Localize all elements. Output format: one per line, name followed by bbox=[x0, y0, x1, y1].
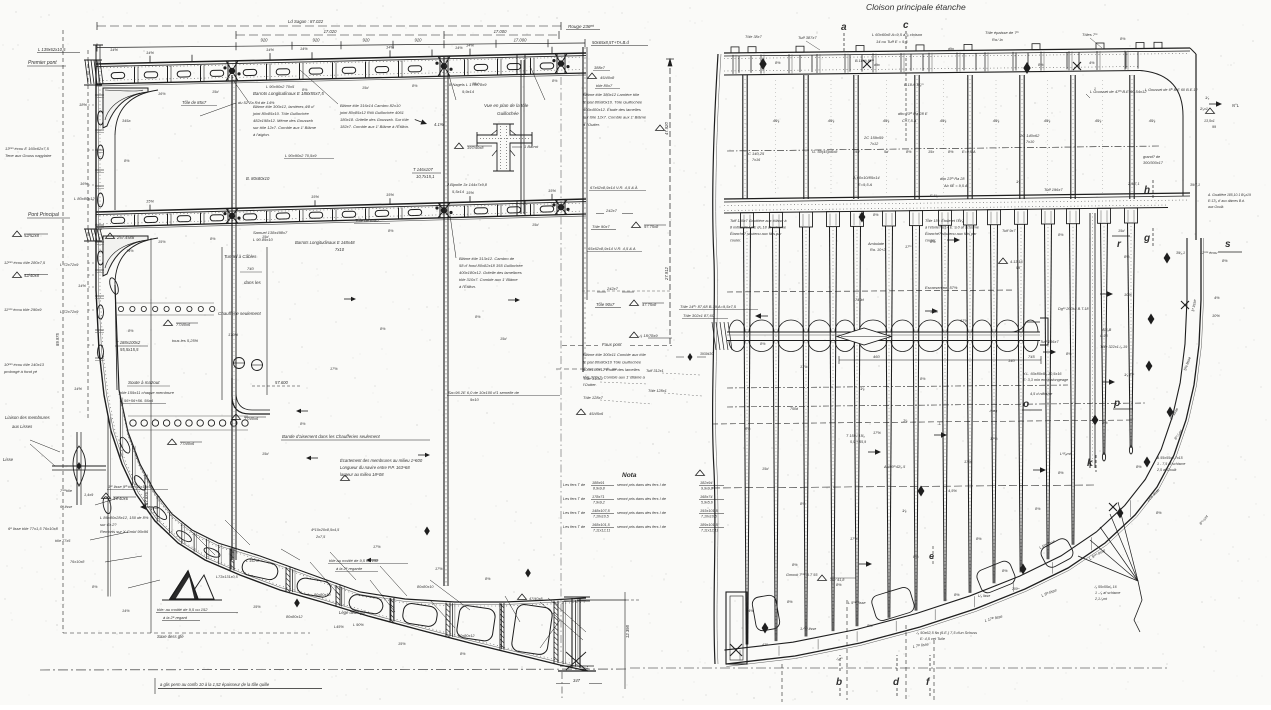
svg-text:L 60x60x8 A=9,5 à ⁄₆ cloison: L 60x60x8 A=9,5 à ⁄₆ cloison bbox=[872, 32, 923, 37]
svg-text:11ᵐᵐ écou tôle 290x9: 11ᵐᵐ écou tôle 290x9 bbox=[4, 307, 42, 312]
svg-text:193x101,5: 193x101,5 bbox=[700, 509, 719, 513]
svg-text:242x7: 242x7 bbox=[606, 286, 619, 291]
svg-text:Tôle 15ᵉ: Étoile et l'Ét⁄₆: Tôle 15ᵉ: Étoile et l'Ét⁄₆ bbox=[925, 218, 964, 223]
svg-text:7,10x10,5: 7,10x10,5 bbox=[593, 515, 609, 519]
svg-text:7ᵐᵐtôle: 7ᵐᵐtôle bbox=[60, 489, 72, 493]
svg-text:g: g bbox=[1143, 233, 1150, 244]
svg-text:tôle 159x11 chaque membrure: tôle 159x11 chaque membrure bbox=[120, 390, 175, 395]
svg-text:c: c bbox=[903, 20, 909, 31]
svg-text:8%: 8% bbox=[552, 79, 558, 83]
svg-text:4%: 4% bbox=[1089, 61, 1095, 65]
svg-text:Premier pont: Premier pont bbox=[28, 60, 57, 66]
svg-text:⁄₆ 18/78x9: ⁄₆ 18/78x9 bbox=[638, 333, 658, 338]
svg-text:145a: 145a bbox=[150, 506, 158, 510]
svg-text:8%: 8% bbox=[388, 229, 394, 233]
svg-text:Barrots Longitudinaux E 188x5: Barrots Longitudinaux E 188x55x7,5 bbox=[253, 91, 324, 96]
svg-text:1 ⁄ᵐᵐ lisse: 1 ⁄ᵐᵐ lisse bbox=[800, 627, 816, 631]
svg-text:1⁄₆: 1⁄₆ bbox=[860, 386, 865, 391]
svg-text:17.000: 17.000 bbox=[494, 29, 507, 34]
svg-text:920: 920 bbox=[415, 38, 423, 43]
svg-text:sur tôle 12x7. Comble aux 1' B: sur tôle 12x7. Comble aux 1' Blâme bbox=[253, 125, 317, 130]
svg-text:seront pris dans des fers I de: seront pris dans des fers I de bbox=[617, 511, 666, 515]
svg-text:17%: 17% bbox=[373, 545, 381, 549]
svg-text:L 90%: L 90% bbox=[353, 623, 364, 627]
svg-text:Ld Sagan : 87.022: Ld Sagan : 87.022 bbox=[288, 19, 324, 24]
svg-text:14%: 14% bbox=[455, 46, 463, 50]
svg-text:80x80x10: 80x80x10 bbox=[314, 593, 331, 597]
svg-text:N°L: N°L bbox=[1232, 103, 1240, 108]
svg-text:56+56+56. 56x4: 56+56+56. 56x4 bbox=[124, 398, 154, 403]
svg-text:Samuel 138x498x7: Samuel 138x498x7 bbox=[253, 230, 288, 235]
svg-text:Chaufferie seulement: Chaufferie seulement bbox=[218, 311, 262, 316]
svg-text:2x7,5: 2x7,5 bbox=[315, 535, 326, 539]
svg-text:tôle 77x5: tôle 77x5 bbox=[55, 539, 71, 543]
svg-text:14 ou Tuff E = 9,6: 14 ou Tuff E = 9,6 bbox=[876, 39, 908, 44]
svg-text:170%: 170% bbox=[228, 332, 239, 337]
svg-text:14%: 14% bbox=[126, 249, 134, 253]
svg-text:dito 23ᵗʰ Ra 28: dito 23ᵗʰ Ra 28 bbox=[940, 177, 965, 181]
svg-text:12.398: 12.398 bbox=[625, 625, 630, 638]
svg-text:1,4x9: 1,4x9 bbox=[84, 493, 94, 497]
svg-text:sur tôle 12x7. Comble aux 1' B: sur tôle 12x7. Comble aux 1' Blâme bbox=[583, 115, 647, 120]
svg-text:prolongé à fond yé: prolongé à fond yé bbox=[3, 369, 38, 374]
svg-text:35 ⁄ 41,8: 35 ⁄ 41,8 bbox=[830, 578, 845, 582]
svg-text:Tôle de 85x7: Tôle de 85x7 bbox=[355, 218, 380, 223]
svg-text:1⁄₆: 1⁄₆ bbox=[1016, 180, 1021, 184]
svg-text:8%: 8% bbox=[920, 377, 926, 381]
svg-text:14%: 14% bbox=[74, 386, 82, 391]
svg-text:9,9x9,8: 9,9x9,8 bbox=[701, 487, 713, 491]
svg-text:80x80x12: 80x80x12 bbox=[286, 615, 303, 619]
svg-text:A. Gouttière 185,10.1 B⁄₆x19: A. Gouttière 185,10.1 B⁄₆x19 bbox=[1207, 193, 1251, 197]
svg-text:15%: 15% bbox=[146, 199, 154, 204]
svg-text:s: s bbox=[1225, 239, 1231, 250]
svg-text:Cloison principale étanche: Cloison principale étanche bbox=[866, 2, 966, 12]
svg-text:15d: 15d bbox=[472, 82, 479, 86]
svg-text:4,5%: 4,5% bbox=[948, 488, 957, 493]
svg-text:10%: 10% bbox=[1212, 313, 1220, 318]
svg-text:920: 920 bbox=[363, 38, 371, 43]
svg-text:15%: 15% bbox=[311, 194, 319, 199]
svg-text:Tôle 38x7: Tôle 38x7 bbox=[745, 35, 763, 39]
svg-text:⁄₆ 50x62,5 fla (6.E.) 7,5 d'un: ⁄₆ 50x62,5 fla (6.E.) 7,5 d'un Schuss bbox=[915, 631, 977, 635]
svg-text:Tene aux Gouss nagylaire: Tene aux Gouss nagylaire bbox=[5, 153, 52, 158]
svg-text:8%: 8% bbox=[1156, 510, 1162, 515]
svg-text:148x107,5: 148x107,5 bbox=[592, 509, 611, 513]
svg-text:45⁄₆: 45⁄₆ bbox=[1095, 118, 1102, 123]
svg-text:17%: 17% bbox=[930, 309, 938, 314]
svg-text:242x7: 242x7 bbox=[605, 208, 618, 213]
svg-text:aux Lisses: aux Lisses bbox=[12, 424, 33, 429]
svg-text:Tuff 136x7 Gouttière aux tôli: Tuff 136x7 Gouttière aux tôlisse à bbox=[730, 219, 787, 223]
svg-text:45/40x8: 45/40x8 bbox=[600, 75, 615, 80]
svg-text:Tôle 322x1 ⁄₆.19: Tôle 322x1 ⁄₆.19 bbox=[1100, 345, 1128, 349]
svg-text:8%: 8% bbox=[1222, 258, 1228, 263]
svg-text:Liaison des membrures: Liaison des membrures bbox=[5, 415, 51, 420]
svg-text:17.020: 17.020 bbox=[324, 29, 337, 34]
svg-text:4,5 d nilleuse: 4,5 d nilleuse bbox=[1030, 392, 1052, 396]
svg-text:5,9 + 55,9: 5,9 + 55,9 bbox=[850, 440, 866, 444]
svg-text:seront pris dans des fers I de: seront pris dans des fers I de bbox=[617, 525, 666, 529]
svg-text:à l'aiglon.: à l'aiglon. bbox=[253, 132, 270, 137]
svg-text:B. 80x80x10: B. 80x80x10 bbox=[246, 176, 270, 181]
svg-text:dito: dito bbox=[874, 63, 880, 67]
svg-text:tous les 5,25%: tous les 5,25% bbox=[172, 338, 199, 343]
svg-text:4.13,16: 4.13,16 bbox=[1010, 260, 1024, 264]
svg-text:Les fers T de: Les fers T de bbox=[563, 511, 585, 515]
svg-text:L 5ᵐᵐ lisse: L 5ᵐᵐ lisse bbox=[848, 601, 866, 605]
svg-text:Longueur du navire entre P.P.: Longueur du navire entre P.P. 163ᵐ68 bbox=[340, 465, 410, 470]
svg-text:a glis perm au confo 10 à la 1: a glis perm au confo 10 à la 1,52 épaiss… bbox=[160, 682, 270, 687]
svg-text:8%: 8% bbox=[128, 329, 134, 333]
svg-text:8%: 8% bbox=[775, 61, 781, 65]
svg-text:1 - ⁄₆ af schisme: 1 - ⁄₆ af schisme bbox=[1095, 591, 1120, 595]
svg-text:13,5x1: 13,5x1 bbox=[1204, 119, 1215, 123]
svg-text:à la 2ᵉ regard: à la 2ᵉ regard bbox=[163, 615, 188, 620]
svg-text:15%: 15% bbox=[253, 605, 261, 609]
svg-text:Faux pont: Faux pont bbox=[602, 342, 622, 347]
svg-text:10,7x15,1: 10,7x15,1 bbox=[416, 174, 434, 179]
svg-text:8%: 8% bbox=[906, 150, 912, 154]
svg-text:joint 80x85x10. Tôle Guilloché: joint 80x85x10. Tôle Guillochée bbox=[252, 111, 310, 116]
svg-text:9,9x14: 9,9x14 bbox=[462, 89, 475, 94]
svg-text:à l'Outter.: à l'Outter. bbox=[583, 122, 600, 127]
svg-text:Guillochée: Guillochée bbox=[497, 111, 519, 116]
svg-text:⊥: ⊥ bbox=[937, 421, 941, 427]
svg-text:4.1%: 4.1% bbox=[434, 122, 444, 127]
svg-text:tôle: au moitié de 9,5 ou 152: tôle: au moitié de 9,5 ou 152 bbox=[157, 607, 208, 612]
svg-text:seront pris dans des fers I de: seront pris dans des fers I de bbox=[617, 483, 666, 487]
svg-text:E=9,5 A: E=9,5 A bbox=[962, 150, 976, 154]
svg-text:2C 140x62: 2C 140x62 bbox=[1019, 133, 1040, 138]
svg-text:8%: 8% bbox=[1058, 470, 1064, 475]
svg-text:Barrots Longitudinaux E 148x4: Barrots Longitudinaux E 148x48 bbox=[295, 240, 355, 245]
svg-text:8%: 8% bbox=[948, 150, 954, 154]
svg-text:8%: 8% bbox=[1058, 233, 1064, 237]
svg-text:dito: dito bbox=[948, 47, 954, 51]
svg-text:Tôle 90x7: Tôle 90x7 bbox=[596, 302, 615, 307]
svg-text:76x10x8: 76x10x8 bbox=[70, 560, 85, 564]
svg-text:couler.: couler. bbox=[925, 239, 936, 243]
svg-text:L 139x62x10,5: L 139x62x10,5 bbox=[38, 47, 66, 52]
svg-text:14%: 14% bbox=[78, 283, 86, 288]
svg-text:⁄₆ 55x55x⁄₆ 16: ⁄₆ 55x55x⁄₆ 16 bbox=[1094, 585, 1117, 589]
svg-text:8%: 8% bbox=[760, 342, 766, 346]
svg-text:8 milliard? 14 E d⁄₆ 18 af sch: 8 milliard? 14 E d⁄₆ 18 af schisme bbox=[730, 226, 786, 230]
svg-text:14%: 14% bbox=[300, 47, 308, 51]
svg-text:L Gousset de 47ᵗʰ B.E 60,54x1: L Gousset de 47ᵗʰ B.E 60,54x12 bbox=[1090, 89, 1147, 94]
svg-text:1⁄₆: 1⁄₆ bbox=[902, 508, 907, 513]
svg-text:8%: 8% bbox=[867, 623, 873, 628]
svg-text:178x71: 178x71 bbox=[592, 495, 604, 499]
svg-text:Nota: Nota bbox=[622, 472, 637, 479]
svg-text:L73x131x0,5: L73x131x0,5 bbox=[216, 575, 239, 579]
svg-text:15%: 15% bbox=[386, 192, 394, 197]
svg-text:Blâme tôle 316x14 Cambro 82x10: Blâme tôle 316x14 Cambro 82x10 bbox=[340, 103, 401, 108]
svg-text:8%: 8% bbox=[300, 422, 306, 426]
svg-text:8 Nagels L 178x78x9: 8 Nagels L 178x78x9 bbox=[449, 82, 487, 87]
svg-text:L 72x72x9: L 72x72x9 bbox=[60, 262, 79, 267]
svg-text:920: 920 bbox=[313, 38, 321, 43]
svg-text:Les fers T de: Les fers T de bbox=[563, 483, 585, 487]
svg-text:15d: 15d bbox=[212, 90, 219, 94]
svg-text:Lᵒᵗ⁄₆mt: Lᵒᵗ⁄₆mt bbox=[1060, 452, 1072, 456]
svg-text:à l'Étillon.: à l'Étillon. bbox=[459, 284, 476, 289]
svg-text:Sa=96 2E 6,0 de 10x100 d'1 sem: Sa=96 2E 6,0 de 10x100 d'1 semelle de bbox=[448, 390, 520, 395]
svg-text:Tôle de 85x7: Tôle de 85x7 bbox=[182, 100, 207, 105]
svg-text:à la 2ᵉ regarde: à la 2ᵉ regarde bbox=[336, 566, 363, 571]
svg-text:8%: 8% bbox=[873, 213, 879, 217]
svg-text:Tôle 90x7: Tôle 90x7 bbox=[592, 224, 610, 229]
svg-text:7x10: 7x10 bbox=[335, 247, 345, 252]
svg-text:8%: 8% bbox=[1038, 63, 1044, 67]
svg-text:750d: 750d bbox=[790, 407, 799, 411]
svg-text:15%: 15% bbox=[466, 190, 474, 195]
svg-text:8%: 8% bbox=[1124, 254, 1130, 259]
svg-text:15%: 15% bbox=[548, 188, 556, 193]
svg-text:920: 920 bbox=[261, 38, 269, 43]
svg-text:47/40x8: 47/40x8 bbox=[529, 597, 543, 601]
svg-text:8%: 8% bbox=[792, 562, 798, 567]
svg-text:45/45x6: 45/45x6 bbox=[589, 411, 604, 416]
svg-text:Tuff 136x7: Tuff 136x7 bbox=[1040, 339, 1059, 344]
svg-text:Ambulate: Ambulate bbox=[867, 242, 884, 246]
svg-text:B.18 ⁄ô B⁄₆ᵐ: B.18 ⁄ô B⁄₆ᵐ bbox=[904, 83, 924, 87]
svg-text:Soute à mazout: Soute à mazout bbox=[128, 380, 160, 385]
svg-text:Escarsement 57%: Escarsement 57% bbox=[925, 285, 958, 290]
svg-text:2,9/7,1: 2,9/7,1 bbox=[1127, 182, 1140, 186]
svg-text:99: 99 bbox=[1212, 125, 1216, 129]
svg-text:8%: 8% bbox=[745, 427, 751, 431]
svg-text:15d: 15d bbox=[532, 223, 539, 227]
svg-text:4%: 4% bbox=[1214, 295, 1220, 300]
svg-text:Tuff 196x7: Tuff 196x7 bbox=[1044, 187, 1063, 192]
svg-text:8%: 8% bbox=[124, 159, 130, 163]
svg-text:a: a bbox=[841, 22, 847, 33]
svg-text:Blâme tôle 313x12. Cambro de: Blâme tôle 313x12. Cambro de bbox=[459, 256, 515, 261]
svg-text:16%: 16% bbox=[158, 92, 166, 96]
svg-text:4%: 4% bbox=[748, 608, 754, 613]
svg-text:345a: 345a bbox=[122, 119, 130, 123]
svg-text:740: 740 bbox=[247, 266, 254, 271]
svg-text:8%: 8% bbox=[976, 536, 982, 541]
svg-text:388x7: 388x7 bbox=[594, 65, 606, 70]
svg-text:Pont Principal: Pont Principal bbox=[28, 212, 60, 218]
svg-text:7,11x12,11: 7,11x12,11 bbox=[701, 529, 718, 533]
svg-text:14%: 14% bbox=[266, 47, 274, 52]
svg-text:17%: 17% bbox=[435, 567, 443, 571]
svg-text:Tuff 387x7: Tuff 387x7 bbox=[798, 35, 817, 40]
svg-text:Ab 6É = 9,5 A: Ab 6É = 9,5 A bbox=[943, 183, 968, 188]
svg-text:1⁄₆: 1⁄₆ bbox=[1205, 96, 1210, 100]
svg-text:65x62x8,9x14 V.R. 4,5 & A: 65x62x8,9x14 V.R. 4,5 & A bbox=[588, 246, 636, 251]
svg-text:Les fers T de: Les fers T de bbox=[563, 497, 585, 501]
svg-text:Dgᵐᵎ 200x2 B.T.18: Dgᵐᵎ 200x2 B.T.18 bbox=[1058, 307, 1089, 311]
svg-text:45⁄₆: 45⁄₆ bbox=[1044, 118, 1051, 123]
svg-text:15d: 15d bbox=[500, 337, 507, 341]
svg-text:482x198x12. Même des Gousseb: 482x198x12. Même des Gousseb bbox=[253, 118, 314, 123]
svg-text:o: o bbox=[1023, 399, 1029, 410]
svg-text:17%: 17% bbox=[873, 430, 881, 435]
svg-text:A0⁄₆B: A0⁄₆B bbox=[1101, 328, 1112, 332]
svg-text:8%: 8% bbox=[954, 592, 960, 597]
svg-text:Bande d'aisement dans les Chau: Bande d'aisement dans les Chaufferies se… bbox=[282, 434, 381, 439]
svg-text:tôle 310x7. Comble aux 1' Blâm: tôle 310x7. Comble aux 1' Blâme bbox=[459, 277, 518, 282]
svg-text:15%: 15% bbox=[398, 642, 406, 646]
svg-text:17%: 17% bbox=[960, 318, 968, 323]
svg-text:1 - 7,5 af schisme: 1 - 7,5 af schisme bbox=[1157, 462, 1185, 466]
svg-text:couler.: couler. bbox=[730, 239, 741, 243]
svg-text:J.Bipolle 3x 144x7x9,8: J.Bipolle 3x 144x7x9,8 bbox=[446, 182, 488, 187]
svg-text:17%: 17% bbox=[800, 365, 808, 369]
svg-text:Rouge 236ᵐᵗ: Rouge 236ᵐᵗ bbox=[568, 24, 595, 29]
svg-text:7x16: 7x16 bbox=[752, 158, 761, 162]
svg-text:C=7,5 A: C=7,5 A bbox=[902, 118, 917, 123]
svg-text:14%: 14% bbox=[122, 609, 130, 613]
svg-text:15d: 15d bbox=[762, 467, 769, 471]
svg-text:Lège deux gfé: Lège deux gfé bbox=[339, 610, 366, 615]
svg-text:45⁄₆: 45⁄₆ bbox=[940, 118, 947, 123]
svg-text:2C 159x59: 2C 159x59 bbox=[863, 135, 884, 140]
svg-text:200ᵐ: 200ᵐ bbox=[1011, 587, 1020, 591]
svg-text:⁄mag: ⁄mag bbox=[989, 409, 997, 413]
svg-text:aux Goulk.: aux Goulk. bbox=[1208, 205, 1224, 209]
svg-text:17%: 17% bbox=[964, 459, 972, 464]
svg-text:L 72x72x9: L 72x72x9 bbox=[60, 309, 79, 314]
svg-text:15d: 15d bbox=[1118, 229, 1125, 233]
svg-text:8%: 8% bbox=[380, 327, 386, 331]
svg-text:4ᵉ10x20x8,5x4,5: 4ᵉ10x20x8,5x4,5 bbox=[311, 528, 340, 532]
svg-text:80x80x12: 80x80x12 bbox=[458, 634, 475, 638]
svg-text:45⁄₆: 45⁄₆ bbox=[993, 118, 1000, 123]
svg-text:E: 4,5 vet Tuile: E: 4,5 vet Tuile bbox=[920, 637, 945, 641]
svg-text:Tuff 312x1: Tuff 312x1 bbox=[646, 369, 664, 373]
svg-text:L 90x90x2 70x5: L 90x90x2 70x5 bbox=[266, 84, 295, 89]
svg-text:8%: 8% bbox=[302, 88, 308, 92]
svg-text:L 152%: L 152% bbox=[246, 559, 259, 563]
svg-text:Écartement des membrures au mi: Écartement des membrures au milieu 1ᵐ600 bbox=[340, 458, 423, 463]
svg-text:2⁄₆x1: 2⁄₆x1 bbox=[1199, 107, 1208, 111]
svg-text:8%: 8% bbox=[1002, 568, 1008, 573]
svg-text:17%: 17% bbox=[330, 367, 338, 371]
svg-text:Δ 400ᵐ42⁄₆.5: Δ 400ᵐ42⁄₆.5 bbox=[883, 465, 906, 469]
svg-text:15d: 15d bbox=[262, 452, 269, 456]
svg-text:1⁄₆ Éᵗᵒ: 1⁄₆ Éᵗᵒ bbox=[1124, 372, 1135, 377]
svg-text:E=9,5 A: E=9,5 A bbox=[858, 182, 873, 187]
svg-text:largeur au milieu 18ᵐ: largeur au milieu 18ᵐ08 bbox=[340, 472, 384, 477]
svg-text:67x62x8,9x14 V.R. 4,5 & A: 67x62x8,9x14 V.R. 4,5 & A bbox=[590, 185, 638, 190]
svg-text:Tôle 302x1 87,60: Tôle 302x1 87,60 bbox=[683, 313, 715, 318]
svg-text:E: 3,3 min encatalongeage: E: 3,3 min encatalongeage bbox=[1023, 378, 1068, 382]
svg-text:T 146x107: T 146x107 bbox=[413, 167, 433, 172]
svg-text:6ᵉ lisse tôle 77x1,5 76x10x8: 6ᵉ lisse tôle 77x1,5 76x10x8 bbox=[8, 526, 59, 531]
svg-text:400x400x12. Étude des lamelles: 400x400x12. Étude des lamelles bbox=[583, 107, 641, 112]
svg-text:8%: 8% bbox=[92, 585, 98, 589]
svg-text:189x101,5: 189x101,5 bbox=[700, 523, 719, 527]
svg-text:8%: 8% bbox=[475, 315, 481, 319]
svg-text:Blâme tôle 380x12 Lamière tôl: Blâme tôle 380x12 Lamière tôle bbox=[583, 92, 640, 97]
svg-text:12ᵐᵐ écou tôle 280x7,5: 12ᵐᵐ écou tôle 280x7,5 bbox=[4, 260, 46, 265]
svg-text:L⁄₆ lisse: L⁄₆ lisse bbox=[978, 594, 990, 598]
svg-text:8%: 8% bbox=[210, 237, 216, 241]
svg-text:seront pris dans des fers I de: seront pris dans des fers I de bbox=[617, 497, 666, 501]
svg-text:Tôle 128x7: Tôle 128x7 bbox=[583, 395, 604, 400]
svg-text:300/300x17: 300/300x17 bbox=[1143, 161, 1164, 165]
svg-text:55,5x15,5: 55,5x15,5 bbox=[120, 347, 139, 352]
svg-text:1: 1 bbox=[1094, 87, 1096, 91]
svg-text:58 d' fond 80x82x18 355 Guillo: 58 d' fond 80x82x18 355 Guillochée bbox=[459, 263, 523, 268]
svg-text:T 188x100x2: T 188x100x2 bbox=[116, 340, 141, 345]
svg-text:Ra ⁄ la: Ra ⁄ la bbox=[992, 38, 1003, 42]
svg-text:dans les: dans les bbox=[244, 280, 262, 285]
svg-text:8,9x9,8: 8,9x9,8 bbox=[593, 487, 605, 491]
svg-text:Gmook 7ᵐᵐ B.T 55: Gmook 7ᵐᵐ B.T 55 bbox=[786, 573, 818, 577]
svg-text:8%: 8% bbox=[836, 582, 842, 587]
svg-text:8%: 8% bbox=[1120, 37, 1126, 41]
svg-text:8%: 8% bbox=[800, 502, 806, 506]
svg-text:7x10: 7x10 bbox=[1026, 140, 1035, 144]
svg-text:10ᵐᵐ écou tôle 140x13: 10ᵐᵐ écou tôle 140x13 bbox=[4, 362, 45, 367]
svg-text:9x10: 9x10 bbox=[470, 397, 479, 402]
svg-text:Tôle épaisse de 7ᵐ: Tôle épaisse de 7ᵐ bbox=[985, 30, 1020, 35]
svg-text:15d: 15d bbox=[262, 235, 269, 239]
svg-text:1 Barrot: 1 Barrot bbox=[524, 144, 539, 149]
svg-text:3939430ᵗ: 3939430ᵗ bbox=[700, 352, 714, 356]
svg-text:14%: 14% bbox=[466, 43, 474, 48]
svg-text:460: 460 bbox=[873, 354, 880, 359]
svg-text:⁄₆ ⁄ᵐ: ⁄₆ ⁄ᵐ bbox=[836, 657, 843, 661]
svg-text:182x7. Comble aux 1' Blâme à l: 182x7. Comble aux 1' Blâme à l'Étillon. bbox=[340, 124, 409, 129]
svg-text:8%: 8% bbox=[460, 652, 466, 656]
svg-text:h: h bbox=[1144, 185, 1150, 196]
svg-text:à l'étoile? B14 E: 9,0 af schi: à l'étoile? B14 E: 9,0 af schisme bbox=[925, 226, 979, 230]
svg-text:Les fers T de: Les fers T de bbox=[563, 525, 585, 529]
svg-text:50x65x8,5T+TA.B.d: 50x65x8,5T+TA.B.d bbox=[592, 40, 629, 45]
svg-text:45⁄₆: 45⁄₆ bbox=[828, 118, 835, 123]
svg-text:17.000: 17.000 bbox=[514, 38, 527, 43]
svg-text:8' plat 80x80x10 Tôle Guilloc: 8' plat 80x80x10 Tôle Guillochée bbox=[583, 360, 642, 365]
svg-text:45⁄₆: 45⁄₆ bbox=[883, 118, 890, 123]
svg-text:13ᵐᵐ écou E 160x62x7,5: 13ᵐᵐ écou E 160x62x7,5 bbox=[5, 146, 50, 151]
svg-text:14%: 14% bbox=[146, 50, 154, 55]
svg-text:Blâme tôle 300x12, lamières 4/: Blâme tôle 300x12, lamières 4/8 d' bbox=[253, 104, 314, 109]
svg-text:14%: 14% bbox=[386, 44, 394, 49]
svg-text:7,9x9,2: 7,9x9,2 bbox=[593, 501, 605, 505]
svg-text:16%: 16% bbox=[80, 181, 88, 186]
svg-text:8%: 8% bbox=[1102, 420, 1108, 425]
svg-text:C.28: C.28 bbox=[1100, 334, 1108, 338]
svg-text:5,5x14: 5,5x14 bbox=[452, 189, 465, 194]
svg-text:745: 745 bbox=[1028, 354, 1035, 359]
svg-text:42ᵐ: 42ᵐ bbox=[762, 643, 768, 647]
svg-text:Blâme tôle 300x11 Comble aux t: Blâme tôle 300x11 Comble aux tôle bbox=[583, 352, 647, 357]
svg-text:45⁄₆: 45⁄₆ bbox=[1149, 118, 1156, 123]
svg-text:Tôle 310x2: Tôle 310x2 bbox=[583, 376, 604, 381]
svg-text:57.600: 57.600 bbox=[275, 380, 288, 385]
svg-text:sur Gr.2?: sur Gr.2? bbox=[100, 522, 117, 527]
svg-text:17%: 17% bbox=[850, 536, 858, 541]
svg-text:8%: 8% bbox=[1035, 507, 1041, 511]
svg-text:10%: 10% bbox=[1124, 292, 1132, 297]
svg-text:Tunnel à Câbles: Tunnel à Câbles bbox=[224, 254, 257, 259]
svg-text:39/7,1: 39/7,1 bbox=[1190, 183, 1200, 187]
svg-text:7,11x12,11: 7,11x12,11 bbox=[593, 529, 610, 533]
svg-text:7⁄₆: 7⁄₆ bbox=[903, 418, 908, 423]
svg-text:l'Outter.: l'Outter. bbox=[583, 382, 597, 387]
svg-text:15%: 15% bbox=[158, 240, 166, 244]
svg-text:grand? de: grand? de bbox=[1143, 155, 1160, 159]
svg-text:Y.L. 60x80x8⁄₆ 10,5x16: Y.L. 60x80x8⁄₆ 10,5x16 bbox=[1023, 372, 1062, 376]
